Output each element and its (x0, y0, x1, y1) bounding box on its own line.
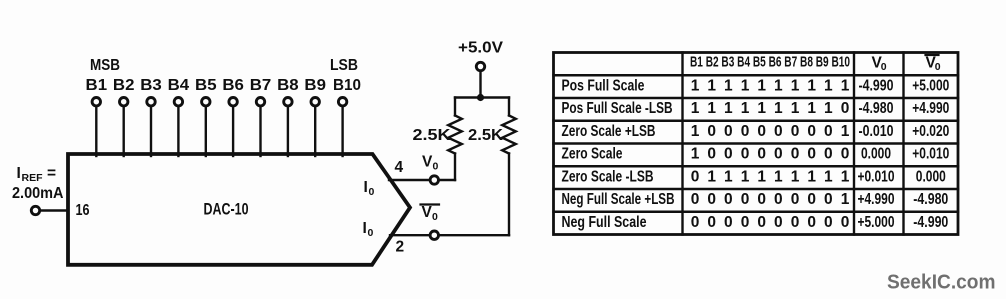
wire supply down (479, 71, 481, 97)
svg-text:4: 4 (394, 159, 403, 176)
svg-text:2.5K: 2.5K (413, 127, 452, 144)
svg-text:B4: B4 (168, 77, 190, 94)
DAC U1 DAC-10 body (68, 154, 410, 265)
supply terminal +5.0V (476, 62, 484, 70)
wire top rail (455, 96, 509, 98)
svg-text:Zero Scale -LSB: Zero Scale -LSB (562, 168, 654, 185)
label IO lower (363, 220, 374, 239)
svg-text:0000000000: 0000000000 (691, 214, 850, 231)
input pin B8 (277, 77, 299, 156)
table header V0 (872, 55, 887, 74)
svg-text:+4.990: +4.990 (912, 100, 949, 117)
terminal IREF (31, 206, 39, 214)
svg-text:SeekIC.com: SeekIC.com (887, 271, 996, 294)
input pin B1 (86, 77, 108, 156)
svg-text:+5.000: +5.000 (912, 78, 949, 95)
svg-text:0: 0 (369, 186, 375, 198)
table row 4: Zero Scale (562, 146, 950, 163)
terminal VO-bar (430, 231, 438, 239)
label IREF = (17, 165, 57, 184)
svg-text:B1: B1 (86, 77, 108, 94)
svg-text:B6: B6 (222, 77, 244, 94)
svg-text:0.000: 0.000 (916, 168, 946, 185)
svg-text:Neg Full Scale +LSB: Neg Full Scale +LSB (562, 191, 675, 208)
svg-text:B7: B7 (250, 77, 272, 94)
terminal VO (430, 176, 438, 184)
svg-text:B1 B2 B3 B4 B5 B6 B7 B8 B9 B10: B1 B2 B3 B4 B5 B6 B7 B8 B9 B10 (690, 54, 850, 71)
wire VO-bar to R2 (439, 234, 509, 236)
svg-text:I: I (17, 165, 21, 182)
input pin B4 (168, 77, 190, 156)
svg-text:1111111111: 1111111111 (691, 78, 850, 95)
svg-text:B9: B9 (304, 77, 326, 94)
svg-text:0: 0 (368, 227, 374, 239)
svg-text:I: I (364, 179, 368, 196)
wire IREF to pin 16 (40, 209, 67, 211)
svg-text:LSB: LSB (330, 57, 358, 74)
svg-text:+0.010: +0.010 (858, 168, 895, 185)
svg-text:1000000000: 1000000000 (691, 146, 850, 163)
svg-text:0: 0 (935, 61, 941, 73)
svg-text:16: 16 (76, 202, 90, 219)
svg-text:DAC-10: DAC-10 (204, 200, 249, 219)
table row 5: Zero Scale -LSB (562, 168, 946, 185)
svg-text:2.00mA: 2.00mA (12, 185, 64, 202)
svg-text:=: = (47, 165, 56, 182)
svg-text:B10: B10 (333, 77, 361, 94)
resistor R1 2.5K (left) (448, 98, 462, 181)
table row 3: Zero Scale +LSB (562, 123, 950, 140)
svg-text:0.000: 0.000 (861, 146, 891, 163)
svg-text:V: V (422, 204, 433, 221)
svg-text:-4.980: -4.980 (913, 191, 948, 208)
input pin B6 (222, 77, 244, 156)
svg-text:-4.980: -4.980 (859, 100, 894, 117)
svg-text:0000000001: 0000000001 (691, 191, 850, 208)
table row 2: Pos Full Scale -LSB (562, 100, 950, 117)
input pin B7 (250, 77, 272, 156)
svg-text:0: 0 (881, 61, 887, 73)
svg-text:0: 0 (433, 161, 439, 173)
table header V0-bar (926, 55, 941, 74)
junction node (477, 94, 484, 101)
svg-text:+4.990: +4.990 (858, 191, 895, 208)
table: DAC output truth table frame (554, 53, 959, 235)
svg-text:B2: B2 (113, 77, 135, 94)
svg-text:Zero Scale: Zero Scale (562, 146, 623, 163)
svg-text:2.5K: 2.5K (468, 127, 504, 144)
svg-text:I: I (363, 220, 367, 237)
svg-text:B8: B8 (277, 77, 299, 94)
wire output pin 4 (389, 179, 430, 181)
svg-text:Zero Scale +LSB: Zero Scale +LSB (562, 123, 656, 140)
input pin B3 (140, 77, 162, 156)
input pin B9 (304, 77, 326, 156)
svg-text:+5.000: +5.000 (858, 214, 895, 231)
label VO-bar (421, 204, 440, 223)
svg-text:B5: B5 (195, 77, 217, 94)
svg-text:1111111110: 1111111110 (691, 100, 850, 117)
input pin B2 (113, 77, 135, 156)
svg-text:Pos Full Scale: Pos Full Scale (562, 78, 645, 95)
svg-text:2: 2 (395, 239, 404, 256)
svg-text:+0.010: +0.010 (912, 146, 949, 163)
input pin B10 (333, 77, 361, 156)
resistor R2 2.5K (right) (502, 98, 516, 236)
svg-text:-0.010: -0.010 (859, 123, 894, 140)
wire VO to R1 (439, 179, 455, 181)
svg-text:REF: REF (22, 172, 44, 184)
svg-text:-4.990: -4.990 (913, 214, 948, 231)
svg-text:V: V (422, 154, 433, 171)
svg-text:B3: B3 (140, 77, 162, 94)
svg-text:+5.0V: +5.0V (458, 40, 504, 57)
label IO upper (364, 179, 375, 198)
table row 6: Neg Full Scale +LSB (562, 191, 949, 208)
svg-text:Pos Full Scale -LSB: Pos Full Scale -LSB (562, 100, 673, 117)
svg-text:-4.990: -4.990 (859, 78, 894, 95)
svg-text:Neg Full Scale: Neg Full Scale (562, 214, 647, 231)
svg-text:1000000001: 1000000001 (691, 123, 850, 140)
svg-text:MSB: MSB (90, 57, 120, 74)
svg-text:0111111111: 0111111111 (691, 168, 850, 185)
wire output pin 2 (390, 234, 430, 236)
label VO (422, 154, 439, 173)
table row 7: Neg Full Scale (562, 214, 949, 231)
svg-text:0: 0 (432, 211, 438, 223)
input pin B5 (195, 77, 217, 156)
svg-text:+0.020: +0.020 (912, 123, 949, 140)
table row 1: Pos Full Scale (562, 78, 950, 95)
